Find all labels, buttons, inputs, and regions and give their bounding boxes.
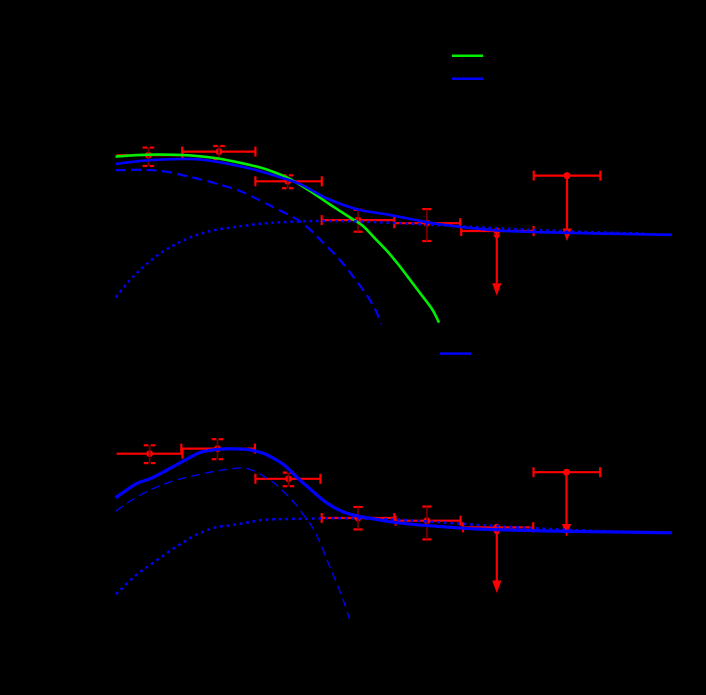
data point P4 with x and y errors <box>322 210 395 232</box>
P2 systematic error: dark line and dashed caps <box>213 146 225 159</box>
top panel: blue cutoff component (long-dashed) <box>116 170 382 324</box>
P4 statistical y-error dark line <box>357 210 359 232</box>
legend: blue model line sample <box>452 77 483 80</box>
Q2 systematic error: dark line and dashed caps <box>212 439 224 459</box>
data point P1 with x-error <box>117 150 183 160</box>
data point Q6: upper limit with down arrow <box>463 522 533 593</box>
Q5 statistical y-error dark line <box>426 507 428 540</box>
P1 systematic error: dark line and dashed caps <box>143 148 155 166</box>
data point Q4 with x and y errors <box>322 507 395 529</box>
data point Q2 with x-error <box>181 444 255 454</box>
legend: green model line sample <box>452 55 483 58</box>
data point Q3 with x-error <box>255 474 320 484</box>
data point P2 with x-error <box>182 147 255 157</box>
data point Q7: upper limit with down arrow <box>534 467 601 536</box>
data point Q1 with x-error <box>117 449 183 459</box>
bottom panel: blue cutoff component (thin long-dashed) <box>116 468 350 619</box>
data point Q5 with x and y errors <box>396 507 461 540</box>
bottom panel: blue second component (dotted) <box>116 518 644 594</box>
Q3 systematic error: dark line and dashed caps <box>283 473 295 487</box>
data point P5 with x and y errors <box>394 209 460 241</box>
P5 statistical y-error dark line <box>426 209 428 241</box>
top panel: blue second component (dotted) <box>116 221 644 297</box>
P3 systematic error: dark line and dashed caps <box>282 175 294 188</box>
top panel: green model curve (solid) <box>116 155 440 323</box>
data point P6: upper limit with down arrow <box>461 226 533 296</box>
bottom panel: blue total model curve (solid, thick) <box>116 449 673 533</box>
Q4 statistical y-error dark line <box>357 507 359 529</box>
Q1 systematic error: dark line and dashed caps <box>144 445 156 463</box>
data point P3 with x-error <box>255 176 321 186</box>
legend (bottom panel): blue model line sample <box>440 352 471 355</box>
top panel: blue total model curve (solid) <box>116 159 673 235</box>
data point P7: upper limit with down arrow <box>534 171 601 241</box>
